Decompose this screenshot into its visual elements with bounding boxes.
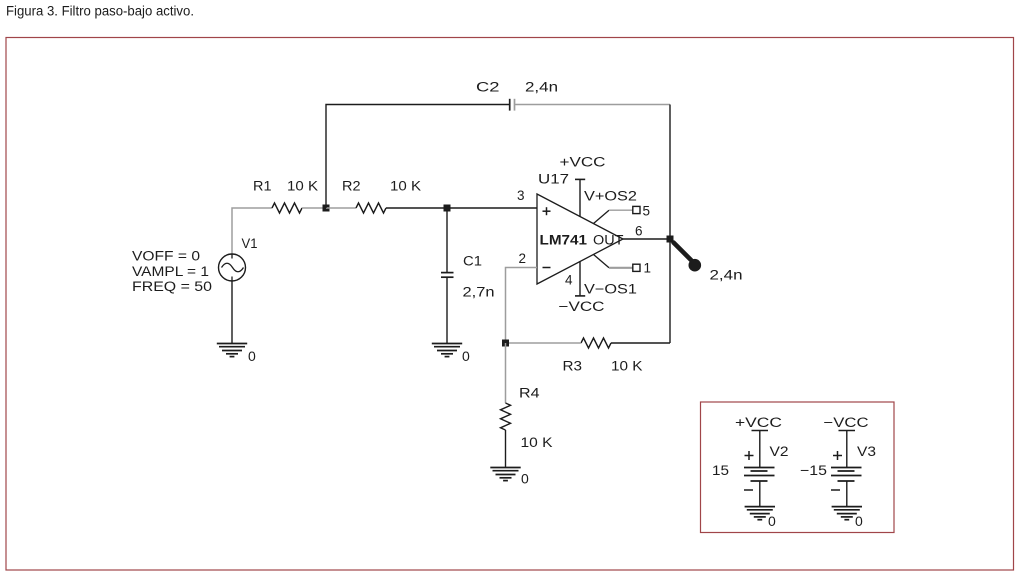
wire R1 to node A (302, 207, 326, 209)
op-amp U1 triangle (537, 194, 623, 284)
wire V2 to ground (759, 481, 761, 507)
node C junction (502, 340, 509, 347)
svg-text:0: 0 (768, 513, 776, 529)
resistor R4 (501, 403, 511, 430)
svg-text:2,4n: 2,4n (525, 80, 558, 95)
svg-text:OUT: OUT (593, 233, 624, 248)
svg-text:0: 0 (462, 348, 470, 364)
svg-text:V2: V2 (770, 444, 789, 459)
svg-text:2,7n: 2,7n (463, 285, 495, 300)
V2 plus marker (745, 451, 754, 460)
ground (R4) (490, 468, 520, 481)
power supplies box (701, 402, 895, 533)
svg-text:U17: U17 (538, 172, 569, 187)
svg-text:−15: −15 (800, 462, 827, 478)
resistor R1 (272, 203, 302, 213)
wire R2 to node B (386, 207, 447, 209)
svg-text:R2: R2 (342, 179, 361, 194)
capacitor C2 (510, 99, 515, 111)
-VCC power symbol (op-amp) (575, 261, 585, 296)
capacitor C1 (441, 273, 454, 278)
wire node B down to C1 (446, 208, 448, 273)
svg-text:10 K: 10 K (287, 179, 318, 194)
svg-text:3: 3 (517, 188, 525, 203)
battery V2 (744, 468, 775, 482)
wire node A up and across to C2 (326, 105, 509, 209)
svg-text:−VCC: −VCC (559, 299, 605, 314)
wire down from C2 corner to output node (669, 105, 671, 240)
wire op-amp to pin 1 port (594, 255, 633, 268)
wire node B to op-amp pin 3 (447, 207, 537, 209)
svg-text:+VCC: +VCC (735, 415, 782, 430)
V3 plus marker (833, 451, 842, 460)
wire R4 to ground (505, 430, 507, 468)
svg-text:V−OS1: V−OS1 (584, 282, 637, 297)
sine source V1 (219, 254, 246, 281)
voltage probe marker (674, 243, 702, 272)
ground (V1) (217, 344, 247, 357)
node OUT junction (667, 236, 674, 243)
wire node C to R4 (505, 343, 507, 403)
wire V1 to ground (231, 281, 233, 344)
svg-text:4: 4 (565, 273, 573, 288)
svg-text:0: 0 (248, 348, 256, 364)
wire output node down to R3 (669, 239, 671, 343)
+VCC power symbol (op-amp) (575, 179, 585, 217)
pin 1 port square (633, 264, 640, 271)
svg-text:FREQ = 50: FREQ = 50 (132, 279, 212, 294)
wire op-amp to pin 5 port (594, 210, 633, 223)
svg-text:VAMPL = 1: VAMPL = 1 (132, 264, 209, 279)
svg-text:10 K: 10 K (390, 179, 421, 194)
battery V3 (831, 468, 862, 482)
svg-text:−VCC: −VCC (824, 415, 869, 430)
wire C1 to ground (446, 277, 448, 343)
wire C2 to output node (515, 104, 671, 106)
svg-text:V1: V1 (242, 236, 258, 251)
svg-text:C1: C1 (463, 254, 482, 269)
+VCC power symbol (V2) (752, 431, 769, 468)
svg-text:1: 1 (644, 261, 652, 276)
svg-text:LM741: LM741 (540, 233, 588, 248)
svg-text:0: 0 (855, 513, 863, 529)
svg-text:C2: C2 (476, 80, 500, 95)
svg-text:R4: R4 (519, 386, 540, 401)
pin 5 port square (633, 206, 640, 213)
V3 minus marker (831, 489, 840, 491)
svg-text:V+OS2: V+OS2 (584, 189, 637, 204)
node B junction (444, 205, 451, 212)
wire R3 left lead to node C (506, 342, 582, 344)
ground (C1) (432, 344, 462, 357)
ground (V2) (745, 507, 775, 520)
wire op-amp output to node OUT (623, 238, 670, 240)
svg-text:R1: R1 (253, 179, 272, 194)
wire V3 to ground (846, 481, 848, 507)
wire V1 to R1 (232, 208, 272, 257)
svg-text:6: 6 (635, 224, 643, 239)
V2 minus marker (744, 489, 753, 491)
wire node A to R2 (326, 207, 356, 209)
svg-text:15: 15 (712, 462, 729, 478)
svg-text:10 K: 10 K (611, 359, 643, 374)
svg-text:2,4n: 2,4n (710, 268, 743, 283)
svg-text:Figura 3. Filtro paso-bajo act: Figura 3. Filtro paso-bajo activo. (6, 4, 194, 19)
wire R3 right lead (611, 342, 670, 344)
svg-text:2: 2 (519, 251, 527, 266)
svg-text:5: 5 (643, 204, 651, 219)
svg-text:0: 0 (521, 471, 529, 487)
node A junction (323, 205, 330, 212)
wire op-amp pin 2 to node C (506, 268, 538, 344)
resistor R2 (356, 203, 386, 213)
op-amp plus input marker (543, 207, 551, 215)
op-amp minus input marker (543, 267, 551, 269)
svg-text:+VCC: +VCC (560, 155, 606, 170)
svg-text:10 K: 10 K (521, 435, 553, 450)
resistor R3 (581, 338, 611, 348)
ground (V3) (832, 507, 862, 520)
svg-text:R3: R3 (563, 359, 583, 374)
svg-text:VOFF = 0: VOFF = 0 (132, 249, 200, 264)
svg-text:V3: V3 (857, 444, 876, 459)
-VCC power symbol (V3) (839, 431, 856, 468)
